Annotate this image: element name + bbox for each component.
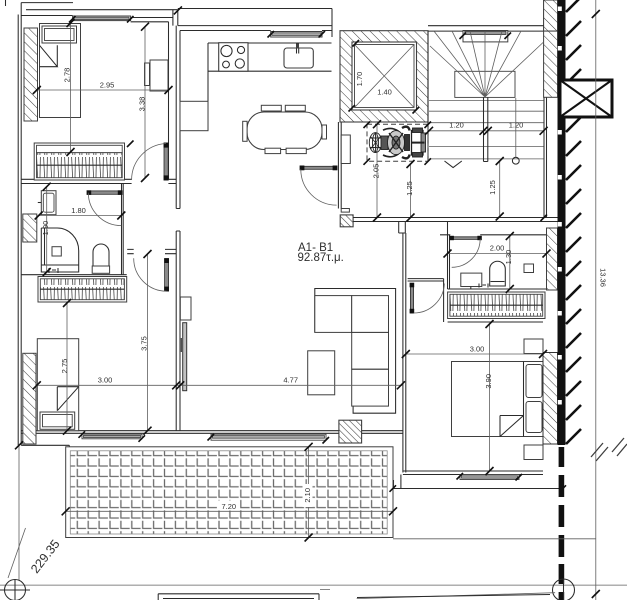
svg-text:2.95: 2.95 bbox=[100, 81, 115, 90]
elevator: X diagonals bbox=[355, 45, 415, 108]
dim line: 3.00 bedroom3 bbox=[406, 353, 543, 355]
fixture: kitchen sink bbox=[284, 48, 313, 68]
pier: wall pier between hall and living bbox=[180, 297, 191, 320]
door: bedroom3 swing arc bbox=[414, 284, 445, 314]
counter: kitchen back line bbox=[208, 42, 332, 44]
fixture: bath1 sink bbox=[41, 191, 56, 215]
window: living room bottom window band bbox=[211, 434, 326, 440]
counter: kitchen left edge bbox=[207, 43, 209, 131]
window: bedroom1 top window band bbox=[73, 16, 131, 21]
closet: bedroom1 closet box bbox=[34, 143, 124, 180]
bed B1 pillow bbox=[42, 26, 77, 43]
wall: bedroom3 bottom wall bbox=[403, 471, 543, 475]
fixture: bath1 toilet bbox=[93, 244, 109, 266]
dim line: 1.20 + 1.20 stairs bbox=[429, 130, 544, 132]
pier: hatched column at terrace bbox=[339, 420, 362, 443]
fixture: bath1 taps bbox=[49, 268, 58, 273]
sofa: outer boundary bbox=[315, 289, 396, 414]
fixture: shower drain bbox=[52, 247, 61, 256]
wardrobe: bedroom1 tall wardrobe bbox=[150, 60, 168, 91]
door: bedroom2 door leaf bbox=[165, 259, 169, 291]
fragment: next drawing bottom edge bbox=[158, 594, 319, 600]
dim line: 1.25 right vertical bbox=[499, 161, 501, 217]
svg-text:1.70: 1.70 bbox=[355, 72, 364, 87]
counter: kitchen front edge bbox=[208, 70, 332, 72]
wall: stair hall right wall below hatch bbox=[544, 97, 547, 217]
elevator: cab outer bbox=[352, 42, 417, 110]
dim line: 2.00 bath2 bbox=[448, 253, 547, 255]
wall: bedroom3 top wall line bbox=[448, 321, 543, 323]
svg-text:4.77: 4.77 bbox=[283, 376, 298, 385]
bed B2 outline bbox=[37, 339, 78, 431]
chair: dining top-left bbox=[261, 105, 281, 111]
halo: 7.20 bbox=[218, 501, 240, 511]
svg-text:2.75: 2.75 bbox=[60, 359, 69, 374]
svg-text:2.00: 2.00 bbox=[490, 244, 505, 253]
window: bedroom2 bottom window band bbox=[82, 434, 142, 439]
window: bedroom3 bottom window band bbox=[460, 475, 519, 480]
door: bath1 swing arc bbox=[88, 193, 121, 226]
wall: bath1 right wall bbox=[122, 184, 124, 275]
wall: bedroom1 top second line bbox=[26, 9, 178, 11]
wall: bedroom3 west wall bbox=[403, 233, 406, 473]
wall: hall south wall double line bbox=[353, 218, 558, 222]
insulation: bedroom1 west wall hatch bbox=[24, 28, 38, 121]
bed B3 headboard line bbox=[523, 362, 525, 437]
insulation: boundary wall hatch above stairs bbox=[544, 0, 558, 31]
svg-text:3.00: 3.00 bbox=[98, 376, 113, 385]
stairwell: void rectangle bbox=[455, 71, 515, 97]
insulation: bath1 west wall hatch window bbox=[23, 214, 37, 242]
bed B1 fold corner bbox=[40, 45, 58, 66]
door: bedroom2 swing arc bbox=[134, 258, 167, 291]
wall: step down to kitchen level bbox=[173, 10, 178, 26]
elevator: cab inner bbox=[355, 45, 415, 108]
wall: bedroom1 top inner left part bbox=[21, 15, 72, 17]
svg-text:92.87τ.μ.: 92.87τ.μ. bbox=[298, 252, 344, 264]
door: bedroom3 door leaf bbox=[410, 284, 413, 314]
column: X-box marker bbox=[560, 80, 612, 117]
parking: dashed rectangle motorbike bay bbox=[367, 124, 428, 161]
door: bath1 door leaf bbox=[88, 191, 120, 194]
door: bath2 door leaf bbox=[450, 237, 480, 240]
dim line: 1.25 left vertical bbox=[410, 164, 412, 218]
wall: bath1 bottom wall bbox=[21, 274, 127, 276]
boundary: terrace line extension right bbox=[393, 538, 596, 540]
boundary: white notches in bar bbox=[558, 7, 562, 405]
fixture: bath2 taps bbox=[479, 284, 488, 288]
door: sliding door panel living bbox=[183, 323, 187, 391]
dim line: 1.30 bath2 vertical bbox=[509, 236, 511, 289]
dim line: 3.00 + 4.77 main horizontal bbox=[37, 384, 403, 386]
svg-text:1.20: 1.20 bbox=[509, 120, 524, 129]
boundary: bottom horizontal line bbox=[0, 584, 627, 586]
sofa: right cushion column bbox=[352, 296, 389, 407]
nightstand: bedroom3 bottom bbox=[524, 445, 543, 460]
door: bath2 swing arc bbox=[452, 239, 481, 267]
wall: left boundary inner line bbox=[17, 15, 19, 446]
boundary: right thick bar bbox=[558, 0, 566, 445]
fixture: bath2 small square bbox=[524, 264, 534, 273]
chair: dining bottom-right bbox=[286, 148, 306, 153]
dim line: 2.75 bedroom2 vertical bbox=[66, 303, 68, 431]
wall: top-left corner tick bbox=[5, 0, 7, 6]
pier: hatched pier at living entry bbox=[340, 215, 353, 227]
chair: dining top-right bbox=[285, 105, 305, 111]
halo: 2.10 bbox=[303, 484, 313, 507]
table: coffee table bbox=[308, 351, 335, 395]
wall: bedroom1 top outer bbox=[21, 2, 73, 4]
appliance: fridge box bbox=[180, 101, 208, 130]
svg-text:1.25: 1.25 bbox=[405, 181, 414, 196]
svg-text:3.00: 3.00 bbox=[470, 345, 485, 354]
stairs: treads bbox=[429, 100, 544, 158]
bed B2 fold corner bbox=[57, 387, 78, 411]
wall: corridor bottom wall (bedroom2 top) bbox=[127, 249, 176, 253]
insulation: stairs right wall hatch bbox=[544, 31, 558, 97]
wall: bedroom3 door head lines bbox=[408, 279, 444, 322]
svg-text:7.20: 7.20 bbox=[221, 502, 236, 511]
door: bedroom1 door leaf bbox=[164, 143, 168, 180]
dim line: 7.20 terrace bbox=[66, 510, 393, 512]
wall: left boundary outer line bbox=[20, 3, 22, 446]
boundary: thin vertical property line bbox=[595, 0, 597, 600]
wall: bedroom2+living bottom wall bbox=[21, 431, 403, 434]
dim line: 3.38 vertical bedroom1 right bbox=[144, 27, 146, 178]
wall: living west double wall lower bbox=[176, 209, 180, 431]
svg-text:13.36: 13.36 bbox=[599, 268, 608, 287]
insulation: bath2 east wall hatch bbox=[547, 228, 558, 290]
closet: closet below bath1 bbox=[38, 277, 127, 303]
svg-text:3.38: 3.38 bbox=[138, 97, 147, 112]
dim line: 1.80 bath1 bbox=[39, 215, 122, 217]
stairs: winder fan lines bbox=[430, 31, 544, 97]
wall: bedroom1 bottom wall right segment bbox=[168, 179, 176, 183]
bed B2 pillow bbox=[40, 412, 75, 429]
svg-text:2.10: 2.10 bbox=[303, 488, 312, 503]
bed B3 pillows bbox=[526, 365, 542, 398]
bed B3 fold corner bbox=[500, 416, 524, 437]
stairs: central divider bbox=[484, 97, 488, 161]
nightstand: bedroom3 top bbox=[524, 339, 543, 354]
fixture: bath2 toilet bbox=[490, 261, 506, 286]
wall: bath2 left wall bbox=[448, 222, 450, 290]
wall: kitchen top inner bbox=[180, 30, 332, 32]
wall: living west double wall upper bbox=[176, 26, 180, 209]
dim line: 2.10 terrace vertical bbox=[308, 447, 310, 538]
dim line: 3.90 bedroom3 vertical bbox=[489, 324, 491, 471]
door: apartment entry swing arc bbox=[301, 169, 337, 205]
svg-text:3.75: 3.75 bbox=[140, 336, 149, 351]
wall: step block below dining east wall bbox=[341, 209, 349, 213]
insulation: bedroom3 east wall hatch bbox=[543, 353, 558, 445]
svg-text:1.80: 1.80 bbox=[71, 206, 86, 215]
closet: bedroom3 top closet bbox=[448, 292, 545, 319]
boundary: dashed bar lower part bbox=[559, 447, 565, 600]
cabinet: duct next to entry bbox=[341, 135, 350, 164]
fixture: shower tray bbox=[41, 228, 78, 272]
wall: bedroom1 top inner right part bbox=[131, 18, 173, 22]
terrace: tiled floor bbox=[70, 451, 387, 534]
insulation: bedroom2 west wall hatch bbox=[23, 353, 36, 444]
wall: bedroom1 right wall bbox=[168, 22, 170, 180]
wall: bedroom1 bottom wall left segment bbox=[21, 179, 131, 183]
elevator: hatched shaft walls bbox=[340, 31, 428, 122]
dim line: 2.05 vertical bbox=[376, 124, 378, 217]
dim line: 2.78 vertical bedroom1 bbox=[70, 23, 72, 152]
wall: notch below hall wall at bedroom3 corner bbox=[399, 222, 406, 234]
wall: bottom-left step to terrace bbox=[21, 445, 69, 447]
terrace: outer boundary bbox=[66, 447, 393, 538]
wall: dining east wall (below elevator) bbox=[338, 122, 341, 209]
svg-text:2.05: 2.05 bbox=[372, 164, 381, 179]
dim line: 3.75 hall vertical bbox=[147, 254, 149, 431]
chair: dining bottom-left bbox=[265, 148, 281, 153]
appliance: stove bbox=[219, 43, 248, 71]
boundary: left vertical line to marker bbox=[18, 445, 20, 580]
fixture: bath2 sink bbox=[461, 273, 482, 286]
marker: survey circle bottom-left bbox=[5, 580, 26, 600]
table: dining oval table bbox=[247, 112, 322, 150]
svg-text:1.25: 1.25 bbox=[488, 180, 497, 195]
marker: boundary circle bottom-right bbox=[553, 579, 575, 600]
boundary: break marks on property line bbox=[591, 438, 627, 461]
chair: dining right bbox=[322, 125, 327, 139]
motorbike: top view symbol bbox=[369, 127, 425, 159]
dim line: 1.90 bath1 vertical bbox=[46, 187, 48, 272]
dim line: 2.95 horizontal bedroom1 bbox=[37, 89, 169, 91]
door: bedroom1 swing arc bbox=[132, 144, 166, 180]
svg-text:1.20: 1.20 bbox=[449, 120, 464, 129]
wall: bath2 bottom wall bbox=[448, 288, 547, 290]
wall: bath2 top wall segments bbox=[440, 234, 547, 236]
stairs: reference circle bbox=[512, 157, 519, 164]
svg-text:3.90: 3.90 bbox=[484, 374, 493, 389]
stairs: down-direction triangle bbox=[445, 161, 462, 168]
wall: stairs top wall bbox=[428, 26, 544, 31]
window: kitchen top window band bbox=[271, 32, 322, 38]
wall: kitchen top outer bbox=[178, 9, 332, 26]
svg-text:1.40: 1.40 bbox=[377, 88, 392, 97]
boundary: diagonal line to survey marker bbox=[8, 528, 26, 578]
svg-text:2.78: 2.78 bbox=[63, 68, 72, 83]
wall: kitchen right edge bbox=[331, 9, 333, 38]
svg-text:1.90: 1.90 bbox=[41, 221, 50, 236]
boundary: sloped lot line bottom bbox=[320, 590, 555, 599]
chair: dining left bbox=[243, 121, 247, 141]
bed B3 outline bbox=[452, 362, 544, 437]
wardrobe: door panel bbox=[145, 63, 150, 86]
window: stairs top window bbox=[463, 31, 508, 42]
svg-text:1.30: 1.30 bbox=[504, 250, 513, 265]
wall: south-east outline below bedroom3 bbox=[394, 475, 564, 489]
bed B1 outline bbox=[40, 24, 81, 118]
sofa: top-left cushion bbox=[315, 296, 352, 333]
wall: stairs left boundary bbox=[427, 31, 429, 161]
door: apartment entry door leaf bbox=[301, 166, 337, 169]
boundary: diagonal hatch ticks bbox=[566, 0, 581, 444]
